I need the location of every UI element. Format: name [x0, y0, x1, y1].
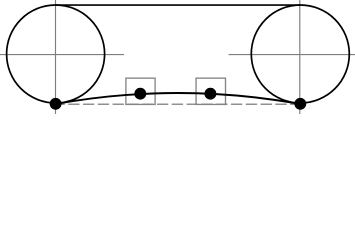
right pulley axle node	[294, 98, 306, 110]
idler roller node 1	[134, 88, 146, 100]
left pulley P1	[7, 5, 105, 103]
right pulley P2	[251, 5, 349, 103]
bottom belt span	[56, 93, 301, 104]
centerline left pulley vertical	[55, 0, 57, 114]
centerline right pulley horizontal	[229, 54, 355, 56]
idler support block 2	[196, 78, 225, 104]
top belt span	[56, 4, 301, 6]
idler roller node 2	[204, 88, 216, 100]
centerline left pulley horizontal	[0, 54, 124, 56]
dashed datum line	[53, 103, 295, 105]
left pulley axle node	[50, 98, 62, 110]
idler support block 1	[126, 78, 155, 104]
centerline right pulley vertical	[299, 0, 301, 114]
